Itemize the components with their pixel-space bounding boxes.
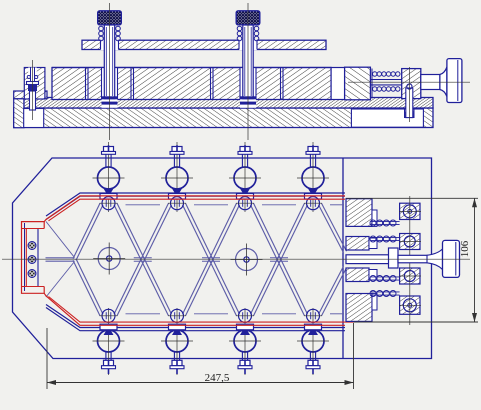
svg-text:247,5: 247,5 [205,372,230,384]
svg-text:106: 106 [459,240,471,257]
